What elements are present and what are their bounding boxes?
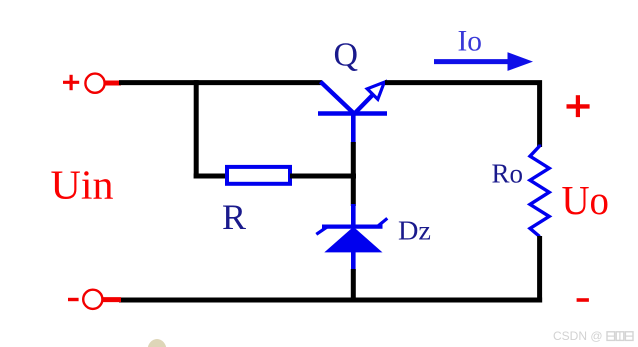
transistor Q emitter lead — [354, 94, 375, 115]
plus sign (output) — [567, 95, 590, 117]
minus sign (output) — [577, 298, 589, 302]
input terminal circle (bottom) — [83, 290, 102, 309]
svg-text:Uo: Uo — [562, 177, 610, 223]
svg-text:Ro: Ro — [492, 158, 524, 188]
watermark blob — [148, 339, 167, 347]
zener diode Dz anode triangle — [324, 227, 382, 253]
wire top rail right segment — [385, 83, 540, 147]
wire middle vertical bottom black — [351, 269, 356, 302]
watermark text — [553, 329, 633, 343]
transistor Q collector lead — [321, 82, 356, 115]
current arrow Io — [434, 52, 533, 71]
wire left vertical branch — [194, 80, 199, 178]
wire resistor left lead — [194, 174, 228, 179]
svg-text:Q: Q — [334, 37, 359, 74]
transistor Q emitter arrowhead (open) — [367, 82, 384, 99]
input terminal plus sign — [63, 75, 79, 90]
zener diode Dz left tail — [316, 227, 327, 234]
wire middle vertical black — [351, 142, 356, 206]
svg-text:Dz: Dz — [398, 215, 431, 246]
wire red stub from top terminal — [105, 81, 121, 86]
minus sign (input) — [68, 298, 79, 301]
input terminal circle (top) — [85, 74, 104, 93]
wire resistor right lead — [290, 174, 356, 179]
wire right vertical bottom — [537, 236, 542, 303]
svg-text:Uin: Uin — [51, 162, 114, 208]
wire zener bottom lead blue — [351, 251, 356, 271]
svg-text:R: R — [222, 197, 246, 237]
wire base lead blue — [351, 112, 356, 144]
resistor R body — [227, 167, 290, 184]
wire top rail left segment — [119, 80, 322, 85]
resistor Ro zigzag — [530, 145, 549, 237]
svg-text:CSDN @: CSDN @ — [553, 329, 603, 343]
svg-text:Io: Io — [458, 25, 483, 58]
wire bottom rail — [119, 298, 542, 303]
zener diode Dz cathode bar — [322, 225, 383, 229]
zener diode Dz right tail — [378, 218, 387, 226]
transistor Q base bar — [318, 111, 387, 115]
wire zener top lead blue — [351, 204, 356, 228]
wire red stub from bottom terminal — [103, 297, 121, 302]
